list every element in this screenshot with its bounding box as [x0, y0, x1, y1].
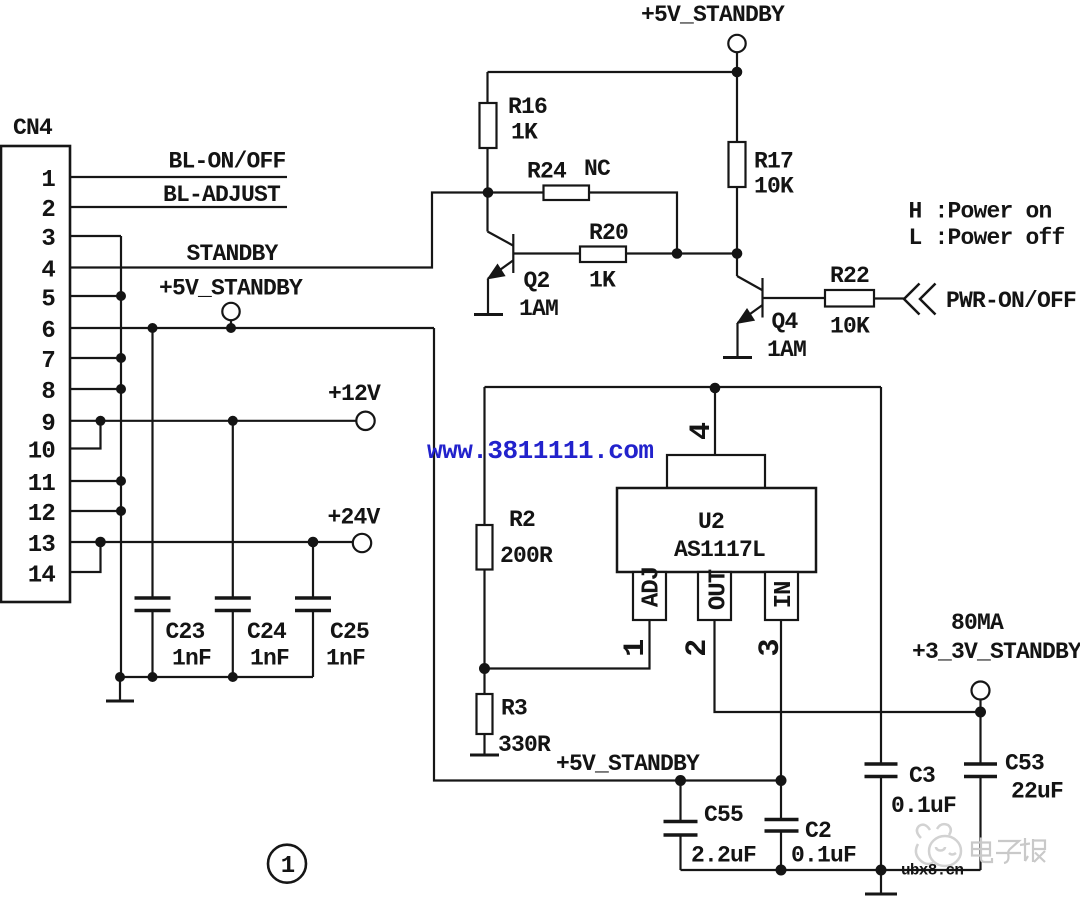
svg-text:ADJ: ADJ — [639, 567, 666, 607]
svg-text:C2: C2 — [805, 818, 831, 844]
ground bottom — [865, 870, 897, 894]
resistor R16 — [480, 103, 497, 148]
wire pin5 — [70, 295, 121, 297]
svg-text:10K: 10K — [754, 174, 794, 200]
resistor R3 — [477, 694, 493, 734]
watermark logo doodle — [916, 824, 961, 866]
svg-text:C25: C25 — [330, 619, 369, 645]
svg-text:U2: U2 — [698, 509, 724, 535]
wire C23 top — [151, 328, 153, 598]
wire pin1 — [70, 176, 287, 178]
IC U2 AS1117L tab — [667, 455, 765, 488]
svg-text:ubx8.cn: ubx8.cn — [901, 862, 963, 880]
svg-text:+24V: +24V — [328, 505, 381, 531]
ground CN4 — [106, 677, 134, 701]
wire pin8 — [70, 388, 121, 390]
svg-text:7: 7 — [41, 348, 55, 375]
svg-text:1: 1 — [619, 639, 653, 657]
svg-text:0.1uF: 0.1uF — [891, 793, 956, 819]
resistor R20 — [580, 247, 626, 263]
transistor Q2 — [488, 193, 514, 314]
ground Q2 — [474, 313, 503, 316]
svg-text:1nF: 1nF — [172, 646, 211, 672]
resistor R22 — [825, 290, 874, 307]
svg-text:C23: C23 — [166, 619, 205, 645]
svg-text:1nF: 1nF — [326, 646, 365, 672]
svg-text:+5V_STANDBY: +5V_STANDBY — [641, 2, 785, 28]
capacitor C23 plates — [135, 596, 171, 600]
wire R3 leads — [483, 669, 485, 695]
svg-text:R24: R24 — [527, 159, 567, 185]
wire C25 bottom — [312, 611, 314, 678]
wire Q2 base to R20 — [513, 252, 580, 254]
wire regulator top rail — [485, 386, 882, 388]
wire ground bus — [120, 236, 122, 678]
svg-text:Q4: Q4 — [772, 309, 799, 335]
svg-text:AS1117L: AS1117L — [674, 537, 765, 563]
wire pin6 riser to 5V rail — [434, 328, 781, 781]
svg-text:10: 10 — [28, 439, 56, 466]
terminal +12V circle — [356, 412, 374, 430]
svg-text:200R: 200R — [500, 543, 553, 569]
wire pin4 STANDBY — [70, 193, 489, 268]
svg-text:C55: C55 — [704, 802, 743, 828]
capacitor C55 plates — [664, 820, 698, 824]
svg-text:+5V_STANDBY: +5V_STANDBY — [556, 751, 700, 777]
wire C23 bottom — [151, 611, 153, 679]
svg-text:BL-ADJUST: BL-ADJUST — [163, 182, 281, 208]
svg-text:H :Power on: H :Power on — [909, 199, 1052, 225]
svg-text:0.1uF: 0.1uF — [791, 843, 856, 869]
junction dots — [732, 67, 743, 78]
wire pin13 to +24V — [70, 541, 353, 543]
connector CN4 body — [1, 146, 70, 602]
svg-text:5: 5 — [41, 287, 55, 314]
wire pin12 — [70, 510, 121, 512]
capacitor C53 plates — [964, 762, 997, 766]
transistor Q4 — [737, 254, 763, 358]
svg-text:2: 2 — [681, 639, 715, 657]
svg-text:4: 4 — [685, 422, 719, 440]
svg-text:OUT: OUT — [706, 569, 733, 610]
svg-text:14: 14 — [28, 563, 56, 590]
svg-text:1AM: 1AM — [767, 337, 806, 363]
wire pin3 — [70, 235, 121, 237]
svg-text:R16: R16 — [508, 94, 547, 120]
ground R3 — [470, 754, 499, 757]
resistor R2 — [477, 525, 493, 570]
svg-text:330R: 330R — [498, 732, 551, 758]
ground Q4 — [723, 356, 752, 359]
svg-text:1: 1 — [41, 167, 55, 194]
page number circle 1 — [268, 845, 306, 883]
svg-text:R3: R3 — [501, 696, 527, 722]
svg-text:1: 1 — [281, 853, 295, 880]
wire R17 leads — [736, 72, 738, 142]
svg-text:4: 4 — [41, 258, 55, 285]
connector chevron PWR-ON/OFF — [904, 284, 936, 315]
svg-text:R2: R2 — [509, 507, 535, 533]
wire U2 tab stem pin 4 — [714, 387, 716, 455]
wire C25 top — [312, 542, 314, 598]
svg-text:6: 6 — [41, 318, 55, 345]
svg-text:3: 3 — [41, 226, 55, 253]
svg-text:1nF: 1nF — [250, 646, 289, 672]
svg-text:22uF: 22uF — [1011, 779, 1063, 805]
svg-text:12: 12 — [28, 501, 55, 528]
IC U2 AS1117L body — [617, 488, 816, 572]
svg-text:PWR-ON/OFF: PWR-ON/OFF — [946, 288, 1076, 314]
wire ADJ pin 1 — [485, 620, 650, 669]
wire C3 leads — [880, 387, 882, 764]
capacitor C3 plates — [865, 762, 898, 766]
wire C53 leads — [979, 712, 981, 764]
svg-text:www.3811111.com: www.3811111.com — [427, 436, 654, 466]
wire pin9 to +12V — [70, 420, 357, 422]
terminal +24V circle — [353, 534, 371, 552]
capacitor C2 plates — [765, 818, 799, 822]
svg-text:+12V: +12V — [328, 381, 381, 407]
wire C24 top — [232, 421, 234, 598]
capacitor C24 plates — [215, 596, 251, 600]
wire Q4 base to R22 — [763, 297, 826, 299]
svg-text:+5V_STANDBY: +5V_STANDBY — [159, 276, 303, 302]
terminal +5V_STANDBY top stem — [736, 52, 738, 72]
svg-text:C24: C24 — [247, 619, 287, 645]
svg-text:1AM: 1AM — [519, 296, 558, 322]
svg-text:2.2uF: 2.2uF — [691, 843, 756, 869]
svg-text:1K: 1K — [589, 268, 616, 294]
svg-text:+3_3V_STANDBY: +3_3V_STANDBY — [912, 639, 1080, 665]
svg-text:1K: 1K — [511, 120, 538, 146]
resistor R24 — [544, 186, 590, 201]
svg-text:BL-ON/OFF: BL-ON/OFF — [169, 149, 286, 175]
wire C2 leads — [780, 781, 782, 819]
svg-text:13: 13 — [28, 532, 56, 559]
wire top rail — [488, 71, 738, 73]
wire bottom ground rail — [681, 869, 981, 871]
svg-text:NC: NC — [584, 156, 611, 182]
wire C55 leads — [679, 781, 681, 821]
wire R22 right — [874, 297, 905, 299]
svg-text:C53: C53 — [1005, 751, 1044, 777]
watermark 电子报 — [972, 838, 1045, 864]
svg-text:R20: R20 — [589, 220, 628, 246]
wire pin7 — [70, 357, 121, 359]
svg-text:11: 11 — [28, 471, 56, 498]
wire R24 leads — [488, 191, 544, 193]
svg-text:9: 9 — [41, 411, 55, 438]
svg-text:10K: 10K — [830, 314, 870, 340]
IC U2 pin ADJ box — [633, 572, 666, 620]
resistor R17 — [729, 142, 746, 187]
svg-text:80MA: 80MA — [951, 610, 1004, 636]
wire R2 leads — [483, 387, 485, 525]
terminal +5V_STANDBY top circle — [728, 35, 745, 52]
wire pin6 — [70, 327, 434, 329]
wire left ground rail — [120, 676, 313, 678]
wire OUT pin 2 to output rail — [715, 620, 981, 712]
svg-text:L :Power off: L :Power off — [909, 225, 1065, 251]
IC U2 pin OUT box — [698, 572, 731, 620]
svg-text:C3: C3 — [909, 763, 935, 789]
terminal +3_3V_STANDBY circle — [972, 682, 990, 700]
wire pin10 — [70, 421, 101, 449]
svg-text:2: 2 — [41, 197, 55, 224]
svg-text:CN4: CN4 — [13, 115, 53, 141]
terminal +5V_STANDBY left circle — [222, 303, 239, 320]
svg-text:R22: R22 — [830, 263, 869, 289]
wire R20 right — [626, 252, 737, 254]
svg-text:R17: R17 — [754, 149, 793, 175]
capacitor C25 plates — [295, 596, 331, 600]
svg-text:Q2: Q2 — [524, 268, 550, 294]
terminal +3_3V_STANDBY stem — [979, 699, 981, 712]
wire IN pin 3 — [780, 620, 782, 781]
svg-text:8: 8 — [41, 379, 55, 406]
svg-text:IN: IN — [771, 582, 798, 609]
wire pin14 — [70, 542, 101, 572]
wire pin11 — [70, 480, 121, 482]
wire R16 leads — [486, 72, 488, 103]
svg-text:3: 3 — [754, 638, 788, 656]
IC U2 pin IN box — [765, 572, 798, 620]
wire C24 bottom — [232, 611, 234, 679]
wire pin2 — [70, 206, 287, 208]
terminal +5V_STANDBY left stem — [230, 320, 232, 328]
svg-text:STANDBY: STANDBY — [187, 241, 279, 267]
